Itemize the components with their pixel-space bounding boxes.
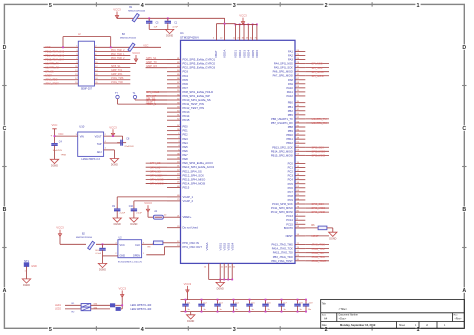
svg-text:PB0: PB0 [288,101,294,105]
pin PD13 [167,111,181,113]
wire nets left PE9-PE14 [146,162,167,164]
svg-text:GMP_TX: GMP_TX [146,60,157,64]
svg-text:.1u: .1u [235,309,238,311]
pin J2-16 [95,75,131,77]
power VCC3 top-left [116,12,118,19]
svg-text:PE8: PE8 [183,157,189,161]
wire VBAT pin [215,24,217,41]
svg-text:.1u: .1u [283,309,286,311]
svg-text:Date:: Date: [322,324,328,327]
wire R6 to ground [327,227,333,229]
pin PE12_SPI4_SCK [167,174,181,176]
svg-text:PC10_SPI3_SCK: PC10_SPI3_SCK [272,202,293,206]
pin PA4_SPI1_NSS [295,63,305,65]
wire bead to osc VCC [96,243,117,245]
svg-text:VIN: VIN [80,135,84,138]
wire PH1_OSC_OUT [146,254,164,256]
pin PE4 [167,142,181,144]
pin PD4 [167,75,181,77]
svg-text:VCC3: VCC3 [239,14,247,18]
svg-text:PB3_JTAG_TDO: PB3_JTAG_TDO [273,255,293,259]
svg-text:PE15: PE15 [183,186,190,190]
svg-text:PE7: PE7 [183,153,189,157]
svg-text:PB2: PB2 [288,109,294,113]
svg-text:D: D [3,45,7,51]
svg-text:VDD6: VDD6 [255,50,259,58]
pin PC3 [295,175,305,177]
svg-text:USART1_RX: USART1_RX [312,121,328,125]
svg-text:PD2_TM3_1: PD2_TM3_1 [111,53,125,56]
svg-text:PE3: PE3 [183,137,189,141]
wire VSS bus to ground [219,280,221,283]
pin PE10_SPI4_ExMa_ACC2 [167,166,181,168]
pin PC15 [295,223,305,225]
svg-text:A: A [3,288,7,294]
svg-text:Monday, September 16, 2019: Monday, September 16, 2019 [340,323,376,327]
svg-text:PB12: PB12 [286,141,293,145]
pin PD1_SPI5_ExMa_GYRO2 [167,63,181,65]
wire J2 pin1-pin2 jumper [63,36,111,38]
wire R1 to LED1 [91,304,110,306]
svg-text:PA4_SPI1_NSS: PA4_SPI1_NSS [274,62,293,66]
pin PB8 [295,126,305,128]
pin PE2 [167,134,181,136]
svg-text:JTAG_TMS: JTAG_TMS [312,243,326,247]
svg-text:SPI4_SS: SPI4_SS [150,169,161,173]
wire TAP [104,142,123,144]
svg-text:DGND: DGND [329,237,336,240]
pin J2-6 [95,54,131,56]
svg-text:3: 3 [233,3,236,9]
wire caps to ground [149,28,169,30]
svg-text:LED1: LED1 [55,304,62,307]
pin PC1 [295,167,305,169]
svg-text:PC11_SPI3_MISO: PC11_SPI3_MISO [271,206,293,210]
wire VSS2 down [223,263,225,279]
pin PB13_SPI2_SCK [295,146,305,148]
pin PD7 [167,87,181,89]
ground DGND at cap bank [187,315,195,319]
svg-text:JTAG_TRST: JTAG_TRST [45,83,59,86]
svg-text:SPI_WP: SPI_WP [147,94,157,98]
svg-text:22uF/16V: 22uF/16V [124,146,134,148]
svg-text:NRST: NRST [45,75,52,78]
svg-text:VCC: VCC [143,44,148,47]
svg-text:JTAG_TDI: JTAG_TDI [312,251,324,255]
svg-text:SPI2_SCK: SPI2_SCK [312,145,325,149]
pin PD14 [167,115,181,117]
ground DGND top caps [165,29,173,33]
svg-text:4: 4 [141,3,144,9]
LED D2 [116,307,121,311]
pin PC14 [295,219,305,221]
pin PC8 [295,195,305,197]
svg-text:PB1: PB1 [288,105,294,109]
svg-text:SPI_SS: SPI_SS [45,71,54,74]
svg-text:2: 2 [325,327,328,333]
svg-text:.1u: .1u [299,309,302,311]
pin PB1 [295,106,305,108]
svg-text:NT1: NT1 [24,259,29,263]
None [217,302,219,304]
svg-text:C: C [462,126,466,132]
pin PE13_SPI4_MISO [167,178,181,180]
svg-text:STM32F429VI: STM32F429VI [180,36,199,40]
svg-text:PE0: PE0 [183,125,189,129]
svg-text:CLK: CLK [135,244,140,247]
power VCC3 at VOUT [112,129,114,136]
svg-text:.1u: .1u [267,309,270,311]
resistor R6 [318,226,327,230]
svg-text:LED2 WP53Y1-40F: LED2 WP53Y1-40F [130,308,152,311]
wire VDD bus [235,23,257,25]
pin PE7 [167,154,181,156]
svg-text:PD11_TEST_PIN: PD11_TEST_PIN [183,102,204,106]
svg-text:LM1117MPX-3.3: LM1117MPX-3.3 [81,158,100,161]
svg-text:GMP_RX1: GMP_RX1 [111,73,123,76]
capacitor C8 plates [117,142,121,144]
ground DGND at BOOT0 [329,232,337,236]
svg-text:PC8: PC8 [288,194,294,198]
pin PB12 [295,142,305,144]
wire VDDA pin [224,18,226,40]
pin PE1 [167,130,181,132]
svg-text:SPI_MISO: SPI_MISO [312,70,324,74]
svg-text:PD14: PD14 [183,114,190,118]
svg-text:PD13: PD13 [183,110,190,114]
pin PD2_SPI5_ExMa_GYRO3 [167,67,181,69]
svg-text:MMZ2012R102A: MMZ2012R102A [128,10,145,13]
svg-text:USART1_RX: USART1_RX [45,67,59,70]
pin J2-14 [95,71,131,73]
wire nets left PD8-PD11 [146,91,167,93]
svg-text:ADJ: ADJ [97,151,102,154]
svg-text:Title: Title [322,303,327,306]
pin J2-9 [44,63,79,65]
svg-text:SPI5_S1: SPI5_S1 [111,65,121,68]
pin PB9 [295,130,305,132]
connector J2 body [78,41,94,86]
pin PB15_SPI2_MOSI [295,154,305,156]
svg-text:SPI4_MOSI: SPI4_MOSI [150,182,164,186]
pin PB2 [295,110,305,112]
svg-text:USART1_TX: USART1_TX [45,62,59,65]
zone letters right [462,44,467,51]
svg-text:VCC3: VCC3 [118,287,126,291]
ferrite bead B2 [88,241,95,249]
svg-text:2.2uF: 2.2uF [120,212,126,214]
svg-text:4: 4 [141,327,144,333]
svg-text:PA7_SPI1_MOSI: PA7_SPI1_MOSI [273,74,293,78]
svg-text:10u: 10u [308,309,311,311]
svg-text:PA11: PA11 [287,90,294,94]
pin VCAP_1 [167,196,181,198]
wire LED2 to VCC3 [121,308,122,310]
svg-text:PH1_OSC OUT: PH1_OSC OUT [183,245,203,249]
test point T2 [116,95,119,98]
svg-text:PE4: PE4 [183,141,189,145]
svg-text:PC13: PC13 [286,214,293,218]
wire VDD6 [256,24,258,40]
pin PD12_TEST_PIN [167,107,181,109]
ground DGND at C4 [50,159,58,163]
svg-text:PC6: PC6 [288,186,294,190]
pin PE6 [167,150,181,152]
capacitor C12 [201,300,203,303]
svg-text:PB15_SPI2_MOSI: PB15_SPI2_MOSI [271,153,293,157]
svg-text:PD5: PD5 [183,78,189,82]
svg-text:U1: U1 [180,31,184,35]
svg-text:OPEN: OPEN [133,255,140,258]
pin J2-17 [44,79,79,81]
svg-text:SPI_SCK: SPI_SCK [312,66,323,70]
svg-text:JTAG_TCK: JTAG_TCK [111,81,123,84]
svg-text:PC0: PC0 [288,162,294,166]
svg-text:3: 3 [233,327,236,333]
pin PA11 [295,91,305,93]
wire LED2 [65,308,81,310]
svg-text:VCC3: VCC3 [184,282,192,286]
svg-text:GMP_TX1: GMP_TX1 [111,69,123,72]
pin J2-11 [44,67,79,69]
pin J2-5 [44,54,79,56]
svg-text:PA1: PA1 [288,50,293,54]
power VCC at U10 [52,128,56,130]
pin PE3 [167,138,181,140]
svg-text:SPI3_MISO: SPI3_MISO [312,206,326,210]
power VCC3 at VREF [147,205,149,212]
svg-text:PA3: PA3 [288,58,293,62]
svg-text:PE6: PE6 [183,149,189,153]
resistor R8 [154,241,163,245]
None [281,302,283,304]
pin PH1_OSC OUT [167,246,181,248]
pin PC11_SPI3_MISO [295,207,305,209]
svg-text:0.1uF: 0.1uF [96,253,102,255]
svg-text:PD10_SPI1_ExMa_SS: PD10_SPI1_ExMa_SS [183,98,211,102]
svg-text:SPI2_MOSI: SPI2_MOSI [312,153,326,157]
svg-text:PD0_SPI5_ExMa_GYRO1: PD0_SPI5_ExMa_GYRO1 [183,58,216,62]
capacitor C17 [281,300,283,303]
pin PD8_SPI1_ExMa_HOLD [167,91,181,93]
svg-text:LED1 WP53Y1-40F: LED1 WP53Y1-40F [130,304,152,307]
ground DGND at NT1 [22,279,30,283]
svg-text:PE10_SPI4_ExMa_ACC2: PE10_SPI4_ExMa_ACC2 [183,165,215,169]
wire VCC3 down [59,237,61,245]
power VCC3 at oscillator [59,230,61,237]
svg-text:PD15: PD15 [183,118,190,122]
ground DGND at C9 [113,218,121,222]
svg-text:U10: U10 [79,124,85,128]
capacitor C18 [297,300,299,303]
title block [321,299,465,328]
svg-text:JTAG_TRST: JTAG_TRST [312,259,327,263]
pin J2-3 [44,50,79,52]
svg-text:PD3: PD3 [183,70,189,74]
pin J2-7 [44,58,79,60]
capacitor [305,302,307,304]
capacitor C1 plates [167,20,169,22]
svg-text:PD8_SPI1_ExMa_HOLD: PD8_SPI1_ExMa_HOLD [183,90,214,94]
svg-text:PB7_USART1_RX: PB7_USART1_RX [271,121,293,125]
capacitor C15 [249,300,251,303]
svg-text:VREF+: VREF+ [183,215,192,219]
svg-text:SPI2_MISO: SPI2_MISO [312,149,326,153]
svg-text:PE2: PE2 [183,133,189,137]
svg-text:PB9: PB9 [288,129,294,133]
svg-text:+: + [51,133,53,137]
svg-text:GND: GND [45,46,51,49]
svg-text:PA5_SPI1_SCK: PA5_SPI1_SCK [274,66,293,70]
svg-text:PC14: PC14 [286,218,293,222]
pin PC9 [295,199,305,201]
wire VDD2 [239,24,241,40]
svg-text:VCAP_2: VCAP_2 [183,199,194,203]
svg-text:DGND: DGND [166,35,173,38]
wire VSS1 down [219,263,221,279]
svg-text:BOOT0: BOOT0 [284,226,293,230]
svg-text:B: B [3,207,7,213]
svg-text:VCC3: VCC3 [109,125,117,129]
pin PE11_SPI4_SS [167,170,181,172]
svg-text:4.7uF: 4.7uF [172,27,178,29]
svg-text:PE5: PE5 [183,145,189,149]
svg-text:NRST: NRST [312,234,319,238]
pin PB0 [295,102,305,104]
svg-text:VBAT: VBAT [214,50,218,58]
svg-text:PD3_TM3_2: PD3_TM3_2 [111,57,125,60]
wire VDD1 [234,24,236,40]
pin PD6 [167,83,181,85]
wire to bead B2 [60,243,86,245]
wire VDD3 [243,24,245,40]
pin PA3 [295,59,305,61]
capacitor C19 (bulk) [305,300,307,303]
regulator U10 body [78,132,104,156]
svg-text:DGND: DGND [99,269,106,272]
svg-text:SPI_MOSI: SPI_MOSI [312,74,325,78]
svg-text:PC2: PC2 [288,170,294,174]
osc GND to ground [103,255,118,257]
pin J2-1 [44,46,79,48]
svg-text:PD1_TM2_2: PD1_TM2_2 [111,49,125,52]
svg-text:A4: A4 [324,316,328,320]
svg-text:VDDA: VDDA [222,50,226,58]
wire LED1 to VCC3 [115,304,122,306]
svg-text:PA10: PA10 [287,86,294,90]
svg-text:PA13_JTAG_TMS: PA13_JTAG_TMS [271,243,293,247]
svg-text:PA15_JTAG_TDI: PA15_JTAG_TDI [273,251,293,255]
resistor R2 [81,307,91,311]
wire VCC down [54,129,56,142]
pin J2-15 [44,75,79,77]
svg-text:DGND: DGND [187,320,194,323]
pin PC6 [295,187,305,189]
pin PE5 [167,146,181,148]
svg-text:PB6_USART1_TX: PB6_USART1_TX [271,117,293,121]
pin PC7 [295,191,305,193]
pin PE0 [167,126,181,128]
wire VSSA down [208,263,210,279]
svg-text:1uF: 1uF [154,27,158,29]
svg-text:PD15_TIM4_CH4: PD15_TIM4_CH4 [45,58,65,61]
svg-text:PB13_SPI2_SCK: PB13_SPI2_SCK [272,145,293,149]
pin Do not Used [167,227,181,229]
svg-text:PC12_SPI3_MOSI: PC12_SPI3_MOSI [271,210,293,214]
wire LED1 [65,304,81,306]
pin J2-10 [95,63,137,65]
power VCC3 at VDD bus [242,18,244,25]
capacitor C5 [148,17,150,19]
svg-text:PE11_SPI4_SS: PE11_SPI4_SS [183,169,202,173]
svg-text:SE8F-207: SE8F-207 [81,87,93,90]
pin BOOT0 [295,227,305,229]
capacitor C5 plates [148,20,150,22]
pin PA9 [295,83,305,85]
svg-text:PC3: PC3 [288,174,294,178]
capacitor C4 plates [54,142,56,144]
wire VDD4 [247,24,249,40]
svg-text:SPI4_MISO: SPI4_MISO [150,177,164,181]
svg-text:VCC: VCC [52,123,58,127]
pin PC2 [295,171,305,173]
svg-text:PD12_TEST_PIN: PD12_TEST_PIN [183,106,205,110]
svg-text:PB11: PB11 [287,137,294,141]
pin PD5 [167,79,181,81]
svg-text:LED2: LED2 [55,308,62,311]
svg-text:JTAG_TDO: JTAG_TDO [45,79,57,82]
pin PB10 [295,134,305,136]
svg-text:PB4_JTAG_TRST: PB4_JTAG_TRST [271,259,293,263]
svg-text:PB14_SPI2_MISO: PB14_SPI2_MISO [271,149,293,153]
pin PA8 [295,79,305,81]
svg-text:DGND: DGND [217,288,224,291]
wire NT1 to ground [26,266,28,279]
wire CLK out [142,243,154,245]
ground DGND at ADJ [110,159,118,163]
pin PB11 [295,138,305,140]
svg-text:PB10: PB10 [286,133,293,137]
svg-text:PE1: PE1 [183,129,189,133]
wire R2 to LED2 [91,308,110,310]
pin PD10_SPI1_ExMa_SS [167,99,181,101]
svg-text:USART1_TX: USART1_TX [312,117,327,121]
wire VSS4 down [231,263,233,279]
pin PA12 [295,95,305,97]
svg-text:PC5: PC5 [288,182,294,186]
svg-text:VCAP_1: VCAP_1 [183,195,194,199]
svg-text:PD7: PD7 [183,86,189,90]
pin PE14_SPI4_MOSI [167,182,181,184]
pin PC0 [295,163,305,165]
svg-text:5: 5 [49,327,52,333]
wire bank to ground [190,312,192,315]
wire VSS3 down [227,263,229,279]
svg-text:<Title>: <Title> [339,307,348,311]
pin J2-13 [44,71,79,73]
None [249,302,251,304]
svg-text:Sheet: Sheet [399,324,405,327]
pin PA5_SPI1_SCK [295,67,305,69]
pin PD9_SPI1_ExMa_WP [167,95,181,97]
svg-text:PA12: PA12 [287,94,294,98]
capacitor C10 plates [133,207,135,209]
svg-text:C10: C10 [129,206,134,208]
svg-text:PA8: PA8 [288,78,293,82]
pin PD3 [167,71,181,73]
pin VCAP_2 [167,200,181,202]
svg-text:DGND: DGND [51,165,58,168]
